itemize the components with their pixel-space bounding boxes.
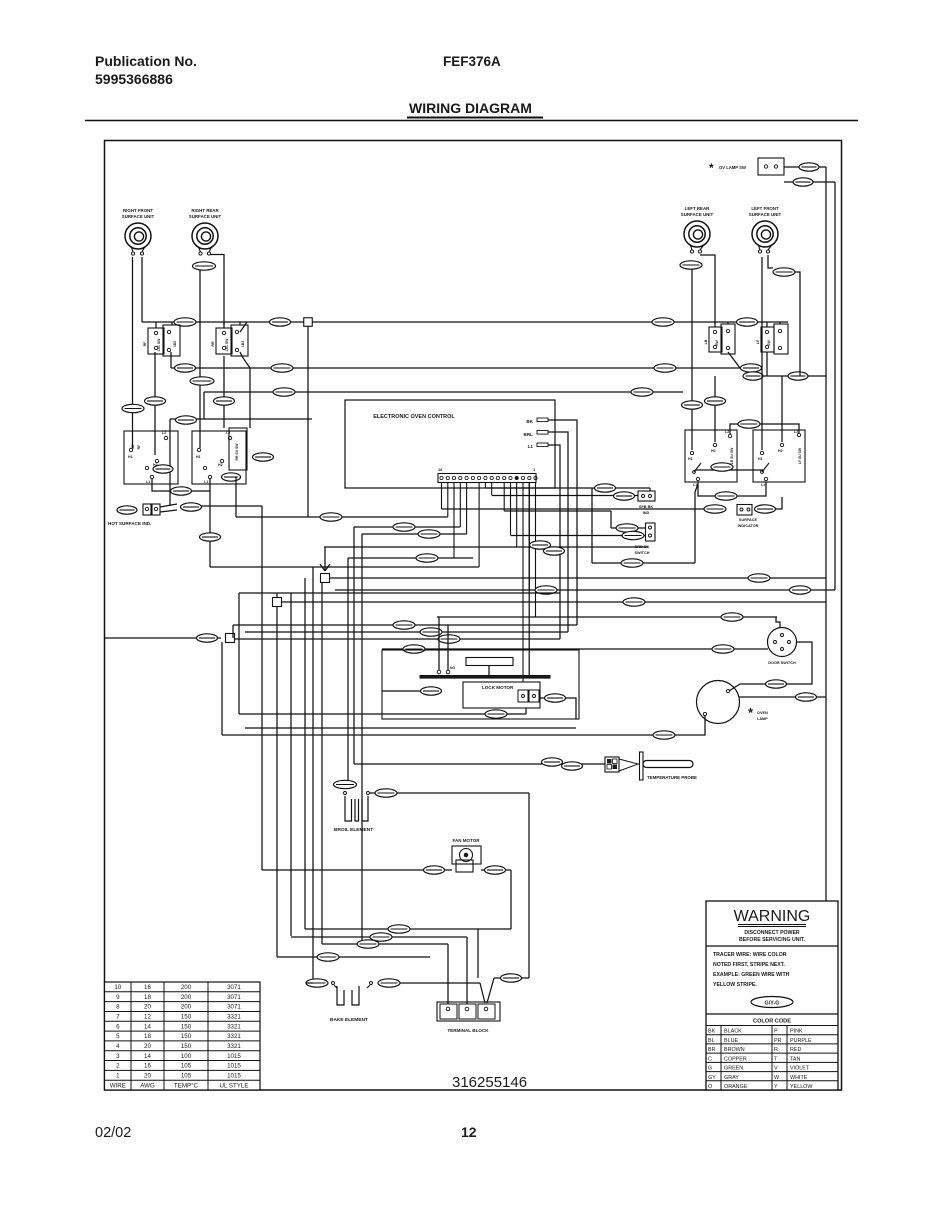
svg-text:H1: H1 [196, 455, 201, 459]
wire RR coil oval drop left [199, 270, 201, 448]
wire vertical from top square [307, 326, 309, 517]
wire vertical x=233 [232, 625, 234, 638]
svg-text:SU: SU [131, 444, 135, 449]
svg-text:150: 150 [181, 1014, 192, 1021]
wire diagonal from 322 run into RR switch [240, 322, 247, 332]
wire vertical x=313 [312, 567, 314, 983]
svg-text:RR SU SW: RR SU SW [235, 443, 239, 461]
connector oval BK on 578 [748, 574, 770, 582]
broiler bake switch BRD BK SWITCH [610, 511, 612, 528]
connector oval PK inside RF box [153, 465, 173, 473]
wire temp probe run [354, 763, 605, 765]
wire run y=957 [277, 956, 430, 958]
svg-text:RIGHT FRONT: RIGHT FRONT [123, 208, 153, 213]
svg-text:LS1 SW: LS1 SW [225, 338, 229, 351]
svg-text:3321: 3321 [227, 1014, 241, 1021]
connector oval big on 200 drop [190, 377, 214, 385]
svg-text:14: 14 [144, 1023, 151, 1030]
wire vertical x=239 to lock run [238, 593, 240, 714]
wire contact row between boxes [696, 469, 764, 471]
wire door switch right loop [729, 642, 812, 691]
wire L1 terminal drop [548, 445, 560, 639]
wire gauge table [105, 982, 261, 1090]
svg-text:TEMPERATURE PROBE: TEMPERATURE PROBE [647, 775, 697, 780]
svg-text:Y: Y [774, 1084, 778, 1090]
svg-text:Publication No.: Publication No. [95, 53, 197, 69]
svg-text:GRAY: GRAY [724, 1075, 739, 1081]
wire bake left feed [306, 982, 313, 984]
wire mesh run y=625 [233, 624, 577, 626]
wire HSI to fan drop [201, 505, 262, 507]
wire right vertical bus B [834, 182, 836, 590]
connector oval on 527 [393, 523, 415, 531]
connector oval B/2 right [654, 364, 676, 372]
connector oval RR inner [253, 453, 274, 461]
connector oval on top run right [652, 318, 674, 326]
connector oval PK under boxes [715, 492, 737, 500]
svg-text:L1: L1 [204, 480, 208, 484]
wire run y=944 [322, 943, 448, 945]
svg-text:COPPER: COPPER [724, 1056, 747, 1062]
svg-text:18: 18 [144, 1033, 151, 1040]
svg-text:V: V [774, 1066, 778, 1072]
wire mesh run y=632 [245, 631, 568, 633]
connector oval on 944 [357, 940, 379, 948]
svg-text:FEF376A: FEF376A [443, 54, 501, 69]
svg-text:20: 20 [144, 1004, 151, 1011]
oven lamp [697, 681, 740, 724]
svg-text:H2: H2 [778, 449, 783, 453]
wire oval to far right drop [813, 181, 835, 183]
wire BRL terminal drop [548, 432, 568, 632]
svg-text:1B2: 1B2 [173, 341, 177, 347]
left front surface switch box [753, 430, 805, 482]
connector oval B-2 at border [197, 634, 218, 642]
svg-text:BAKE ELEMENT: BAKE ELEMENT [330, 1017, 368, 1023]
wire lamp switch lower run [784, 181, 793, 183]
svg-text:SURFACE: SURFACE [739, 518, 758, 522]
svg-text:VIOLET: VIOLET [790, 1066, 810, 1072]
svg-text:LB: LB [704, 339, 708, 344]
lock motor enclosure [382, 650, 579, 719]
color code table [706, 1026, 838, 1091]
wire fan drop extension [477, 929, 479, 978]
svg-text:C: C [708, 1056, 712, 1062]
connector oval R on 590 right [790, 586, 811, 594]
svg-text:RF: RF [143, 341, 147, 347]
svg-text:H1: H1 [688, 457, 693, 461]
svg-text:*: * [748, 705, 754, 720]
connector oval BR-3 on 649 [403, 645, 425, 653]
svg-text:IND: IND [643, 511, 650, 515]
svg-text:DOOR SWITCH: DOOR SWITCH [768, 661, 796, 665]
wire long run y=728 [245, 727, 576, 729]
connector oval BK-5 [793, 178, 813, 186]
lock motor bar [420, 676, 550, 679]
svg-text:GY: GY [708, 1075, 716, 1081]
svg-text:L1: L1 [146, 480, 150, 484]
connector oval BK-1 on 625 [393, 621, 415, 629]
wire mesh run y=617 door feed [437, 616, 777, 618]
junction square S2 [276, 593, 278, 598]
svg-text:3321: 3321 [227, 1043, 241, 1050]
connector oval R-3 right of lamp [796, 693, 817, 701]
connector oval R bake right [378, 979, 400, 987]
svg-text:14: 14 [144, 1053, 151, 1060]
svg-text:12: 12 [461, 1124, 477, 1140]
svg-text:NO: NO [450, 666, 455, 670]
temperature probe plug [605, 757, 619, 772]
connector oval on 937 [370, 933, 392, 941]
svg-text:H1: H1 [758, 457, 763, 461]
svg-text:20: 20 [144, 1043, 151, 1050]
connector oval R-4 [799, 163, 819, 171]
wire vertical x=322 from S1 [321, 582, 323, 944]
wire door switch feed drop [776, 617, 780, 627]
connector oval on 224 drop [214, 397, 235, 405]
terminal block [437, 1002, 500, 1021]
connector oval right of lock motor [540, 697, 545, 699]
wire mesh run y=527 left [354, 526, 460, 528]
wire mesh run y=567 [210, 566, 479, 568]
svg-text:H1: H1 [128, 455, 133, 459]
connector oval on top run left [174, 318, 196, 326]
wire fan right run [481, 869, 511, 871]
wire SFB branch down [591, 488, 593, 563]
wire mesh run y=534 left [362, 533, 467, 535]
svg-text:9: 9 [116, 994, 120, 1001]
right rear switch inner rect [229, 428, 247, 470]
wire RF coil left terminal drop [132, 257, 134, 448]
temperature probe bowtie [619, 759, 640, 771]
connector oval G above LR box [682, 401, 703, 409]
right front surface unit coil [122, 208, 155, 255]
connector oval on 547 [530, 541, 551, 549]
svg-text:GREEN: GREEN [724, 1066, 743, 1072]
svg-text:R: R [774, 1047, 778, 1053]
wire fan right drop [510, 870, 512, 929]
connector oval GY-1 [181, 503, 202, 511]
wire broil to bake-row vertical [528, 793, 530, 978]
svg-text:ORANGE: ORANGE [724, 1084, 748, 1090]
electronic oven control box U1 [345, 400, 555, 488]
connector oval fan right [485, 866, 506, 874]
wire L2 link between boxes [730, 424, 799, 434]
contact arms [694, 463, 769, 472]
connector oval B-3 floating [176, 416, 197, 424]
wire bake right run [382, 982, 480, 984]
svg-text:SURFACE UNIT: SURFACE UNIT [681, 212, 714, 217]
svg-text:LR SU SW: LR SU SW [730, 447, 734, 464]
wire oven lamp left drop [222, 716, 705, 735]
connector oval PK on contact row [711, 463, 733, 471]
svg-text:WARNING: WARNING [734, 908, 811, 925]
connector oval Y/B mid [271, 364, 293, 372]
connector oval B-1 under left front unit [773, 268, 795, 276]
svg-text:H2: H2 [711, 449, 716, 453]
wire vertical x=354 temp probe feed [353, 527, 355, 764]
svg-text:EXAMPLE: GREEN WIRE WITH: EXAMPLE: GREEN WIRE WITH [713, 972, 790, 978]
svg-text:200: 200 [181, 994, 192, 1001]
svg-text:200: 200 [181, 984, 192, 991]
svg-text:L1: L1 [761, 483, 765, 487]
right rear surface unit coil [189, 208, 222, 255]
wire box A bottom-left to RF switch [154, 352, 156, 455]
wire mesh run y=590 [335, 589, 835, 591]
svg-text:5: 5 [116, 1033, 120, 1040]
warning divider 1 [706, 945, 838, 947]
wire LB coil oval drop to LR box [691, 269, 693, 450]
wire from border to S3 [105, 637, 222, 639]
svg-text:20: 20 [144, 1072, 151, 1079]
junction square S1 with arrow [320, 560, 330, 571]
svg-text:TERMINAL BLOCK: TERMINAL BLOCK [447, 1028, 489, 1033]
svg-text:4: 4 [116, 1043, 120, 1050]
svg-text:L1: L1 [528, 444, 534, 449]
svg-text:G/Y-G: G/Y-G [765, 1001, 780, 1007]
wire diagonal left switch [728, 352, 740, 368]
wire vertical x=222 to lamp run [221, 642, 223, 735]
wire right chain bottom run [494, 977, 529, 979]
svg-text:LAMP: LAMP [757, 717, 768, 721]
left rear surface switch box [685, 430, 737, 482]
bake element [306, 979, 328, 987]
svg-text:O: O [708, 1084, 712, 1090]
left rear surface unit coil [681, 206, 714, 253]
wire LF coil left terminal drop [761, 257, 763, 450]
wire RR coil right to box feed [211, 255, 225, 326]
svg-text:WIRING DIAGRAM: WIRING DIAGRAM [409, 100, 532, 116]
wire mesh run y=602 [281, 601, 826, 603]
svg-text:316255146: 316255146 [452, 1074, 527, 1091]
tracer example oval G/Y-G [751, 997, 793, 1008]
connector oval PK right of indicator [755, 505, 776, 513]
svg-text:1015: 1015 [227, 1063, 241, 1070]
svg-text:RED: RED [790, 1047, 801, 1053]
wire mesh run y=535 right [510, 535, 645, 537]
wire lock contact feeds [438, 617, 440, 670]
svg-text:P: P [774, 1029, 778, 1035]
svg-text:150: 150 [181, 1023, 192, 1030]
right rear surface switch box [192, 431, 246, 484]
wire LF oval to right drop [795, 272, 800, 376]
svg-text:BEFORE SERVICING UNIT.: BEFORE SERVICING UNIT. [739, 937, 805, 943]
lock motor cam bar [466, 658, 513, 666]
wire run y=368 [171, 367, 740, 369]
svg-text:*: * [709, 161, 714, 175]
wire RR inner drop [223, 356, 225, 428]
svg-text:105: 105 [181, 1063, 192, 1070]
wire broil left feed oval [334, 780, 357, 788]
svg-text:BRL: BRL [524, 432, 534, 437]
svg-text:UL STYLE: UL STYLE [219, 1082, 248, 1089]
wire mesh run y=511 right to broiler bake switch [504, 510, 611, 512]
connector oval W-2 [485, 710, 507, 718]
svg-text:LOCK MOTOR: LOCK MOTOR [482, 685, 514, 690]
wire left front switch lower feeds [766, 352, 768, 376]
connector oval pair on probe run [542, 758, 563, 766]
EOC pin drop wires [442, 483, 536, 683]
connector oval W under boxes [171, 487, 192, 495]
wire box A bottom-right to 368 run [170, 352, 172, 368]
svg-text:150: 150 [181, 1043, 192, 1050]
connector oval on 590 mid [535, 586, 557, 594]
warning divider 2 [706, 1013, 838, 1015]
svg-text:TEMP°C: TEMP°C [174, 1082, 199, 1089]
wire vertical x=348 broil feed [347, 558, 349, 786]
svg-text:16: 16 [144, 984, 151, 991]
connector oval on 517 [320, 513, 342, 521]
svg-text:H2: H2 [218, 463, 223, 467]
connector oval BR-2 [145, 397, 166, 405]
wire HSI diagonals [160, 504, 177, 512]
svg-text:L2: L2 [162, 431, 166, 435]
svg-text:3321: 3321 [227, 1023, 241, 1030]
svg-text:SURFACE UNIT: SURFACE UNIT [749, 212, 782, 217]
connector oval Y above LR box [705, 397, 726, 405]
wire L1 link under left boxes [152, 479, 210, 567]
svg-text:LEFT REAR: LEFT REAR [685, 206, 710, 211]
svg-text:G: G [708, 1066, 712, 1072]
svg-text:1B2: 1B2 [241, 341, 245, 347]
svg-text:100: 100 [181, 1053, 192, 1060]
connector oval under left rear unit [680, 261, 702, 269]
svg-text:L1: L1 [693, 483, 697, 487]
svg-text:SURFACE UNIT: SURFACE UNIT [189, 214, 222, 219]
connector oval under right rear unit [193, 262, 216, 270]
svg-text:RIGHT REAR: RIGHT REAR [191, 208, 219, 213]
left rear infinite switch box [709, 327, 722, 352]
wire mesh run y=649 door switch left [382, 648, 768, 650]
svg-text:3321: 3321 [227, 1033, 241, 1040]
connector oval on 558 [416, 554, 438, 562]
svg-text:SW: SW [767, 339, 771, 345]
hot surface indicator lamp [117, 506, 137, 514]
svg-text:L2: L2 [725, 430, 729, 434]
wire bake diagonal to post3 [480, 983, 485, 1003]
connector oval on 929 [388, 925, 410, 933]
svg-text:BK: BK [526, 419, 533, 424]
header rule [85, 120, 858, 122]
connector oval L-2 on 649 [712, 645, 734, 653]
connector oval on top run mid [270, 318, 291, 326]
connector oval on 376 left [743, 372, 763, 380]
wire lock oval to enclosure corner [565, 698, 576, 719]
svg-text:02/02: 02/02 [95, 1125, 131, 1141]
connector oval on 978 [501, 974, 522, 982]
svg-text:3071: 3071 [227, 994, 241, 1001]
connector oval on 632 [420, 628, 442, 636]
svg-text:SURFACE UNIT: SURFACE UNIT [122, 214, 155, 219]
connector oval R inside RR box [222, 473, 241, 481]
svg-text:DISCONNECT POWER: DISCONNECT POWER [744, 930, 800, 936]
connector oval R on L2 link [738, 420, 760, 428]
svg-text:BLACK: BLACK [724, 1029, 742, 1035]
svg-text:LF SU SW: LF SU SW [798, 447, 802, 464]
svg-text:3071: 3071 [227, 984, 241, 991]
wire oven lamp right [739, 696, 826, 698]
svg-text:RF: RF [137, 444, 141, 450]
svg-text:ELECTRONIC OVEN CONTROL: ELECTRONIC OVEN CONTROL [373, 414, 455, 420]
left front surface unit coil [749, 206, 782, 253]
lock motor contact points [437, 670, 441, 674]
wire vertical x=262 HSI to fan [261, 506, 263, 870]
right front surface switch box [124, 431, 178, 484]
connector oval BR on 602 [623, 598, 645, 606]
svg-text:INDICATOR: INDICATOR [738, 524, 759, 528]
svg-text:6: 6 [116, 1023, 120, 1030]
svg-text:PR: PR [774, 1038, 782, 1044]
svg-text:YELLOW STRIPE.: YELLOW STRIPE. [713, 982, 757, 988]
wire vertical into LF box H2 [781, 376, 783, 442]
diagram border frame [105, 141, 842, 1091]
svg-text:BROIL ELEMENT: BROIL ELEMENT [334, 827, 373, 833]
connector oval D-1 [421, 687, 442, 695]
svg-text:LF: LF [756, 339, 760, 344]
wire run y=392 PB [204, 391, 683, 393]
wire terminal block post drops [447, 944, 449, 1004]
wire S1 feed from 547 run [324, 547, 326, 560]
svg-text:WHITE: WHITE [790, 1075, 808, 1081]
svg-text:L2: L2 [226, 431, 230, 435]
svg-text:1: 1 [533, 467, 536, 472]
svg-text:2: 2 [116, 1063, 120, 1070]
wire RF coil right terminal drop [141, 257, 143, 322]
connector oval R-1 broil [375, 789, 397, 797]
connector oval GY on 368 left [175, 364, 196, 372]
wire lock feed drop2 [528, 483, 530, 677]
svg-text:200: 200 [181, 1004, 192, 1011]
svg-text:L2: L2 [794, 430, 798, 434]
wire broil right run [370, 792, 529, 794]
wire run y=937 [291, 936, 467, 938]
surface indicator lamp pair [737, 505, 752, 516]
wire mesh run y=593 [239, 592, 560, 594]
svg-text:AWG: AWG [140, 1082, 155, 1089]
svg-text:NOTED FIRST, STRIPE NEXT.: NOTED FIRST, STRIPE NEXT. [713, 962, 785, 968]
svg-text:SWITCH: SWITCH [635, 551, 650, 555]
svg-text:HOT SURFACE IND.: HOT SURFACE IND. [108, 521, 151, 526]
svg-text:OVEN: OVEN [757, 711, 768, 715]
temperature probe body [640, 752, 644, 780]
svg-text:COLOR CODE: COLOR CODE [753, 1019, 791, 1025]
svg-text:3071: 3071 [227, 1004, 241, 1011]
wire LB coil right terminal to LB switch [700, 255, 715, 324]
svg-text:3: 3 [116, 1053, 120, 1060]
connector oval PB-1 [273, 388, 295, 396]
wire lamp switch to oval [784, 166, 799, 168]
svg-text:TAN: TAN [790, 1056, 800, 1062]
svg-text:16: 16 [438, 467, 443, 472]
wire L1 link under surface switch boxes [698, 482, 766, 496]
door switch S4 [768, 628, 797, 657]
svg-text:FAN MOTOR: FAN MOTOR [453, 838, 481, 843]
svg-text:YELLOW: YELLOW [790, 1084, 813, 1090]
svg-text:1: 1 [116, 1072, 120, 1079]
connector oval between left switches [737, 318, 758, 326]
junction square node on top run [304, 318, 313, 327]
svg-text:PINK: PINK [790, 1029, 803, 1035]
wire mesh run y=509 surface indicator row [442, 508, 711, 510]
svg-text:1015: 1015 [227, 1053, 241, 1060]
wire mesh run y=558 [348, 557, 473, 559]
connector oval on 376 right [788, 372, 808, 380]
wire vertical x=291 [290, 593, 292, 936]
left front infinite switch box [761, 327, 774, 352]
svg-text:8: 8 [116, 1004, 120, 1011]
connector oval BK-2 on lamp run [653, 731, 675, 739]
svg-text:SFB BK: SFB BK [639, 505, 653, 509]
